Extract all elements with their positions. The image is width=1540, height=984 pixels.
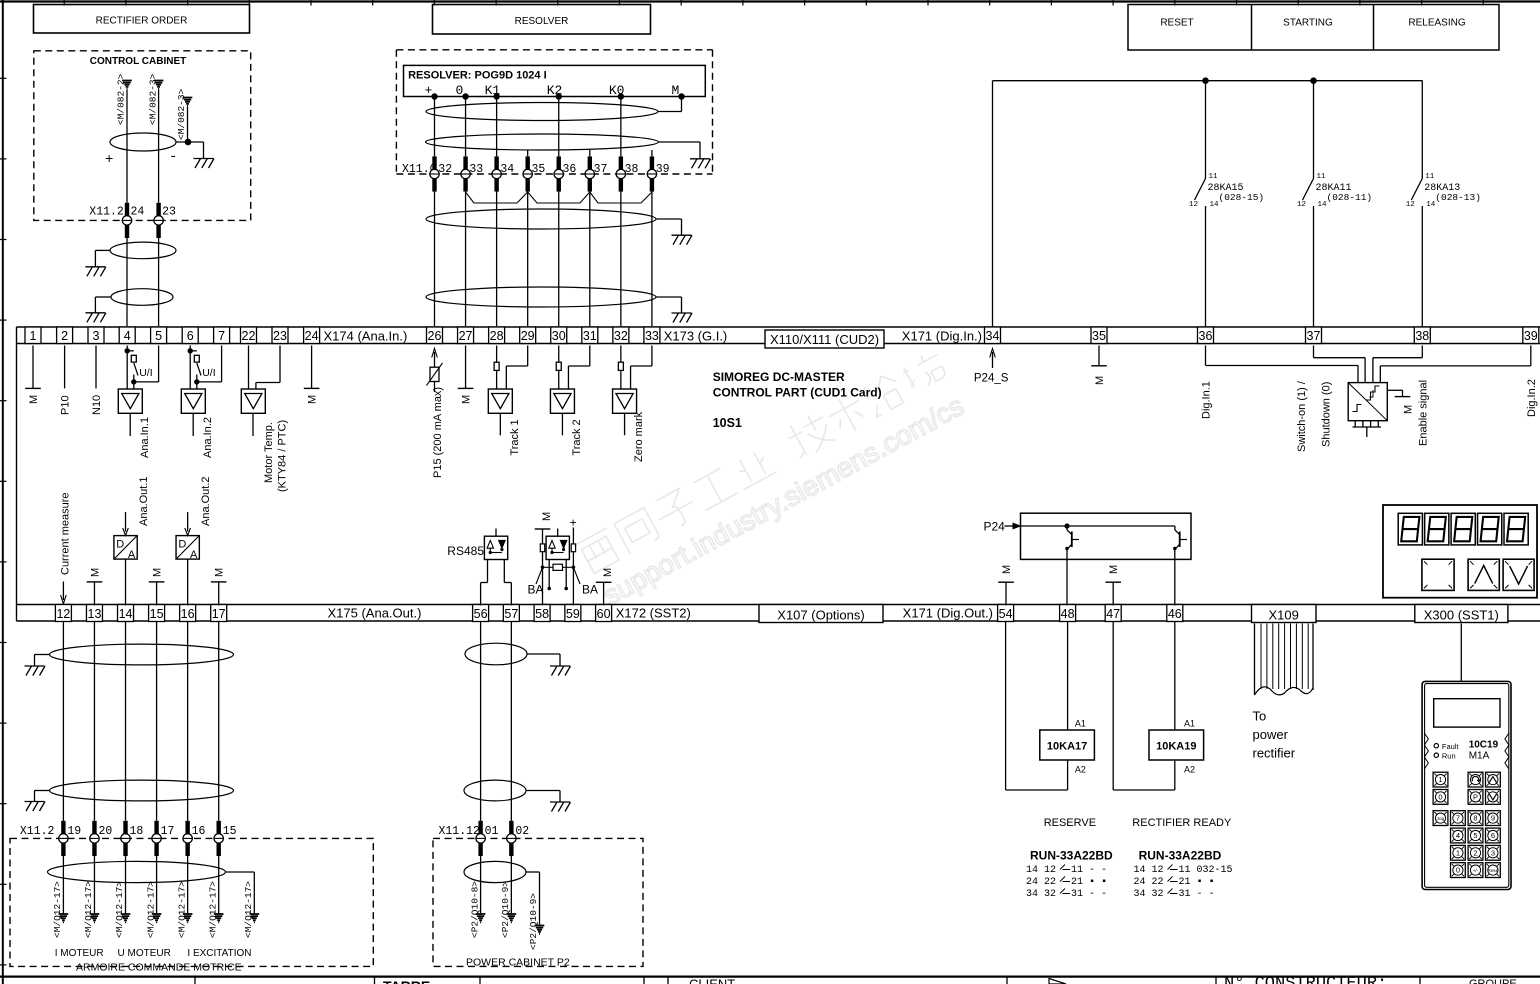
svg-text:28: 28: [490, 329, 504, 343]
svg-text:<M/Q12-17>: <M/Q12-17>: [207, 881, 218, 938]
svg-text:▪ ▪: ▪ ▪: [1197, 877, 1215, 888]
svg-text:X300 (SST1): X300 (SST1): [1424, 608, 1499, 623]
svg-text:3: 3: [93, 329, 100, 343]
svg-text:10KA19: 10KA19: [1156, 741, 1196, 753]
svg-text:Track 1: Track 1: [509, 419, 521, 455]
svg-text:+: +: [105, 152, 113, 168]
svg-text:56: 56: [474, 607, 488, 621]
svg-text:23: 23: [162, 206, 176, 219]
svg-text:U/I: U/I: [139, 367, 152, 379]
svg-text:U/I: U/I: [202, 367, 215, 379]
svg-text:P: P: [1473, 793, 1478, 802]
svg-text:11: 11: [1425, 173, 1435, 181]
svg-text:3: 3: [1491, 848, 1495, 857]
svg-text:Track 2: Track 2: [571, 419, 583, 455]
svg-text:power: power: [1253, 727, 1289, 742]
svg-text:X109: X109: [1269, 608, 1299, 623]
svg-text:58: 58: [535, 607, 549, 621]
svg-text:23: 23: [273, 329, 287, 343]
svg-text:To: To: [1253, 709, 1267, 724]
svg-text:X173 (G.I.): X173 (G.I.): [664, 328, 728, 343]
svg-text:TARRE: TARRE: [383, 978, 430, 984]
svg-text:+: +: [570, 517, 577, 531]
svg-text:Dig.In.2: Dig.In.2: [1526, 379, 1538, 417]
svg-text:X172 (SST2): X172 (SST2): [616, 605, 691, 620]
svg-text:14 12: 14 12: [1134, 865, 1164, 876]
svg-text:21: 21: [1071, 877, 1083, 888]
svg-text:RESOLVER: POG9D 1024 I: RESOLVER: POG9D 1024 I: [408, 70, 547, 82]
svg-text:M: M: [602, 568, 614, 577]
svg-text:<P2/Q10-9>: <P2/Q10-9>: [500, 881, 511, 938]
svg-text:24: 24: [305, 329, 319, 343]
svg-text:<P2/Q10-9>: <P2/Q10-9>: [528, 893, 539, 950]
svg-text:34: 34: [986, 329, 1000, 343]
svg-text:10S1: 10S1: [713, 416, 742, 430]
svg-text:A: A: [128, 549, 136, 561]
svg-text:X171 (Dig.In.): X171 (Dig.In.): [902, 328, 982, 343]
svg-text:22: 22: [242, 329, 256, 343]
svg-text:11: 11: [1317, 173, 1327, 181]
svg-text:- -: - -: [1089, 865, 1107, 876]
svg-text:<M/Q12-17>: <M/Q12-17>: [83, 881, 94, 938]
svg-text:59: 59: [566, 607, 580, 621]
svg-text:1: 1: [30, 329, 37, 343]
svg-text:31: 31: [1071, 889, 1083, 900]
svg-text:M: M: [541, 512, 553, 521]
svg-text:38: 38: [625, 163, 639, 176]
svg-text:RECTIFIER READY: RECTIFIER READY: [1132, 817, 1232, 829]
svg-text:CONTROL CABINET: CONTROL CABINET: [90, 56, 186, 67]
svg-text:0: 0: [1438, 793, 1442, 802]
svg-text:RESERVE: RESERVE: [1044, 817, 1096, 829]
svg-text:34: 34: [500, 163, 514, 176]
svg-text:29: 29: [521, 329, 535, 343]
svg-text:10C19: 10C19: [1469, 740, 1499, 751]
svg-text:Fault: Fault: [1442, 742, 1460, 751]
svg-text:BA: BA: [582, 583, 598, 597]
svg-text:37: 37: [594, 163, 608, 176]
svg-text:24: 24: [131, 206, 145, 219]
svg-text:N10: N10: [91, 395, 103, 415]
svg-text:RESET: RESET: [1160, 18, 1193, 29]
svg-text:X107 (Options): X107 (Options): [777, 608, 864, 623]
svg-text:U MOTEUR: U MOTEUR: [118, 948, 171, 959]
svg-text:(028-13): (028-13): [1435, 192, 1481, 203]
svg-text:46: 46: [1168, 607, 1182, 621]
svg-text:POWER CABINET P2: POWER CABINET P2: [466, 957, 570, 969]
svg-text:RS485: RS485: [447, 544, 484, 558]
svg-text:35: 35: [531, 163, 545, 176]
svg-text:4: 4: [1456, 831, 1460, 840]
svg-text:39: 39: [656, 163, 670, 176]
svg-text:6: 6: [1491, 831, 1495, 840]
svg-text:13: 13: [88, 607, 102, 621]
svg-text:X171 (Dig.Out.): X171 (Dig.Out.): [903, 605, 993, 620]
svg-text:M: M: [1001, 565, 1013, 574]
svg-text:M: M: [672, 83, 680, 98]
svg-text:7: 7: [1456, 814, 1460, 823]
svg-text:RECTIFIER ORDER: RECTIFIER ORDER: [96, 16, 188, 27]
svg-text:P10: P10: [60, 395, 72, 415]
svg-text:M: M: [28, 395, 40, 404]
svg-text:Ana.Out.2: Ana.Out.2: [200, 476, 212, 526]
svg-text:RUN-33A22BD: RUN-33A22BD: [1030, 849, 1113, 863]
svg-text:11: 11: [1071, 865, 1083, 876]
svg-text:47: 47: [1106, 607, 1120, 621]
svg-text:N° CONSTRUCTEUR:: N° CONSTRUCTEUR:: [1224, 975, 1387, 984]
svg-text:32: 32: [438, 163, 452, 176]
svg-text:P24: P24: [984, 520, 1006, 534]
svg-text:21: 21: [1179, 877, 1191, 888]
svg-text:32: 32: [614, 329, 628, 343]
svg-text:2: 2: [1473, 848, 1477, 857]
svg-text:0: 0: [1456, 866, 1460, 875]
svg-text:36: 36: [563, 163, 577, 176]
svg-text:CONTROL PART (CUD1 Card): CONTROL PART (CUD1 Card): [713, 386, 882, 400]
svg-text:33: 33: [645, 329, 659, 343]
svg-text:12: 12: [56, 607, 70, 621]
svg-text:GROUPE: GROUPE: [1469, 978, 1517, 984]
svg-text:M: M: [307, 395, 319, 404]
svg-text:+/-: +/-: [1473, 868, 1479, 873]
svg-text:Switch-on (1) /: Switch-on (1) /: [1296, 380, 1308, 452]
svg-text:RELEASING: RELEASING: [1408, 18, 1465, 29]
svg-text:6: 6: [187, 329, 194, 343]
svg-text:9: 9: [1491, 814, 1495, 823]
svg-text:Jog: Jog: [1437, 816, 1445, 821]
svg-text:<P2/Q10-8>: <P2/Q10-8>: [469, 881, 480, 938]
svg-text:60: 60: [597, 607, 611, 621]
svg-text:<M/082-3>: <M/082-3>: [176, 88, 187, 140]
svg-text:X174 (Ana.In.): X174 (Ana.In.): [324, 328, 408, 343]
svg-text:1: 1: [1438, 775, 1442, 784]
svg-text:Rese: Rese: [1488, 868, 1499, 873]
svg-text:4: 4: [124, 329, 131, 343]
svg-text:D: D: [178, 539, 186, 551]
svg-text:- -: - -: [1089, 889, 1107, 900]
svg-text:Enable signal: Enable signal: [1418, 380, 1430, 446]
svg-text:I EXCITATION: I EXCITATION: [187, 948, 251, 959]
svg-text:<M/082-3>: <M/082-3>: [147, 73, 158, 125]
svg-text:RUN-33A22BD: RUN-33A22BD: [1139, 849, 1222, 863]
svg-text:RESOLVER: RESOLVER: [515, 16, 569, 27]
svg-text:19: 19: [67, 825, 81, 838]
svg-text:<M/Q12-17>: <M/Q12-17>: [243, 881, 254, 938]
svg-text:Ana.Out.1: Ana.Out.1: [138, 476, 150, 526]
svg-text:Ana.In.1: Ana.In.1: [139, 417, 151, 458]
svg-text:Run: Run: [1442, 752, 1456, 761]
svg-text:<M/Q12-17>: <M/Q12-17>: [145, 881, 156, 938]
svg-text:<M/Q12-17>: <M/Q12-17>: [176, 881, 187, 938]
svg-text:57: 57: [504, 607, 518, 621]
svg-text:5: 5: [1473, 831, 1477, 840]
svg-text:34 32: 34 32: [1134, 889, 1164, 900]
svg-text:X11.12: X11.12: [439, 825, 481, 838]
svg-text:X11.2: X11.2: [20, 825, 55, 838]
svg-text:24 22: 24 22: [1026, 877, 1056, 888]
svg-text:7: 7: [218, 329, 225, 343]
svg-text:8: 8: [1473, 814, 1477, 823]
svg-text:39: 39: [1524, 329, 1538, 343]
svg-text:12: 12: [1297, 201, 1306, 209]
svg-text:31: 31: [1179, 889, 1191, 900]
svg-text:M: M: [89, 568, 101, 577]
svg-text:rectifier: rectifier: [1253, 746, 1296, 761]
svg-text:24 22: 24 22: [1134, 877, 1164, 888]
svg-text:M: M: [461, 395, 473, 404]
svg-text:X11.2: X11.2: [89, 206, 124, 219]
svg-text:33: 33: [469, 163, 483, 176]
svg-text:17: 17: [161, 825, 175, 838]
svg-text:18: 18: [130, 825, 144, 838]
svg-text:1: 1: [1456, 848, 1460, 857]
svg-text:16: 16: [192, 825, 206, 838]
svg-text:SIMOREG DC-MASTER: SIMOREG DC-MASTER: [713, 370, 845, 384]
svg-text:- -: - -: [1197, 889, 1215, 900]
svg-text:P24_S: P24_S: [974, 373, 1009, 385]
svg-text:10KA17: 10KA17: [1047, 741, 1087, 753]
svg-text:17: 17: [212, 607, 226, 621]
svg-text:K2: K2: [547, 83, 563, 98]
svg-text:Dig.In.1: Dig.In.1: [1200, 381, 1212, 419]
svg-text:14 12: 14 12: [1026, 865, 1056, 876]
svg-text:Zero mark: Zero mark: [633, 411, 645, 462]
svg-text:STARTING: STARTING: [1283, 18, 1333, 29]
svg-text:M: M: [214, 568, 226, 577]
svg-text:+: +: [425, 83, 433, 98]
svg-text:K0: K0: [609, 83, 625, 98]
svg-text:(KTY84 / PTC): (KTY84 / PTC): [276, 420, 288, 492]
svg-text:I MOTEUR: I MOTEUR: [55, 948, 104, 959]
svg-text:-: -: [169, 149, 177, 165]
svg-text:▪ ▪: ▪ ▪: [1089, 877, 1107, 888]
svg-text:26: 26: [428, 329, 442, 343]
svg-text:(028-11): (028-11): [1327, 192, 1373, 203]
svg-text:A1: A1: [1184, 719, 1195, 729]
svg-text:34 32: 34 32: [1026, 889, 1056, 900]
svg-text:31: 31: [583, 329, 597, 343]
svg-text:15: 15: [150, 607, 164, 621]
svg-text:37: 37: [1307, 329, 1321, 343]
svg-text:M: M: [152, 568, 164, 577]
svg-text:Shutdown (0): Shutdown (0): [1321, 382, 1333, 447]
svg-text:11: 11: [1179, 865, 1191, 876]
svg-text:2: 2: [61, 329, 68, 343]
svg-text:M: M: [1108, 565, 1120, 574]
svg-text:38: 38: [1415, 329, 1429, 343]
svg-text:(028-15): (028-15): [1219, 192, 1265, 203]
svg-text:X175 (Ana.Out.): X175 (Ana.Out.): [328, 605, 422, 620]
svg-text:14: 14: [119, 607, 133, 621]
svg-text:A1: A1: [1075, 719, 1086, 729]
svg-text:A2: A2: [1184, 765, 1195, 775]
svg-text:M1A: M1A: [1469, 751, 1490, 762]
svg-text:A2: A2: [1075, 765, 1086, 775]
svg-text:<M/Q12-17>: <M/Q12-17>: [114, 881, 125, 938]
svg-text:54: 54: [999, 607, 1013, 621]
svg-text:20: 20: [98, 825, 112, 838]
svg-text:ARMOIRE COMMANDE MOTRICE: ARMOIRE COMMANDE MOTRICE: [76, 962, 242, 974]
svg-text:48: 48: [1061, 607, 1075, 621]
svg-text:M: M: [1402, 405, 1414, 414]
svg-text:<M/082-2>: <M/082-2>: [116, 73, 127, 125]
svg-text:35: 35: [1092, 329, 1106, 343]
svg-text:P15 (200 mA max): P15 (200 mA max): [432, 387, 444, 478]
svg-text:15: 15: [223, 825, 237, 838]
svg-text:<M/Q12-17>: <M/Q12-17>: [52, 881, 63, 938]
svg-text:27: 27: [459, 329, 473, 343]
svg-text:CLIENT: CLIENT: [689, 977, 735, 984]
svg-text:12: 12: [1189, 201, 1198, 209]
svg-text:Ana.In.2: Ana.In.2: [202, 417, 214, 458]
svg-text:02: 02: [515, 825, 529, 838]
svg-text:11: 11: [1209, 173, 1219, 181]
svg-text:Current measure: Current measure: [59, 492, 71, 575]
svg-text:D: D: [116, 539, 124, 551]
svg-text:Motor Temp.: Motor Temp.: [263, 422, 275, 483]
svg-text:032-15: 032-15: [1197, 865, 1233, 876]
svg-text:36: 36: [1199, 329, 1213, 343]
svg-text:BA: BA: [528, 583, 544, 597]
svg-text:12: 12: [1406, 201, 1415, 209]
svg-text:X110/X111 (CUD2): X110/X111 (CUD2): [770, 332, 879, 347]
svg-text:30: 30: [552, 329, 566, 343]
svg-text:K1: K1: [485, 83, 501, 98]
svg-text:M: M: [1094, 376, 1106, 385]
svg-text:5: 5: [155, 329, 162, 343]
svg-text:16: 16: [181, 607, 195, 621]
svg-text:A: A: [190, 549, 198, 561]
svg-text:01: 01: [485, 825, 499, 838]
svg-text:0: 0: [456, 83, 464, 98]
